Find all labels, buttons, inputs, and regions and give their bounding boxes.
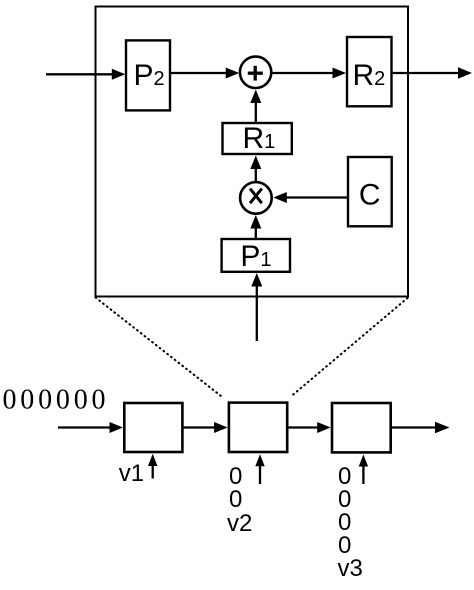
svg-text:v3: v3 [338, 555, 363, 582]
svg-text:0 0 0 0 0 0: 0 0 0 0 0 0 [3, 385, 106, 416]
svg-text:0: 0 [229, 486, 242, 513]
svg-text:v2: v2 [227, 510, 252, 537]
svg-text:v1: v1 [119, 460, 144, 487]
svg-text:C: C [359, 178, 381, 211]
